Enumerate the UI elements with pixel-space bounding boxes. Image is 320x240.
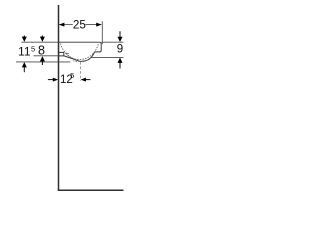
svg-text:9: 9 [117, 44, 123, 56]
svg-text:5: 5 [31, 45, 35, 54]
svg-text:5: 5 [70, 71, 74, 80]
svg-text:11: 11 [18, 45, 31, 59]
svg-text:25: 25 [73, 19, 87, 32]
svg-text:8: 8 [38, 44, 45, 58]
